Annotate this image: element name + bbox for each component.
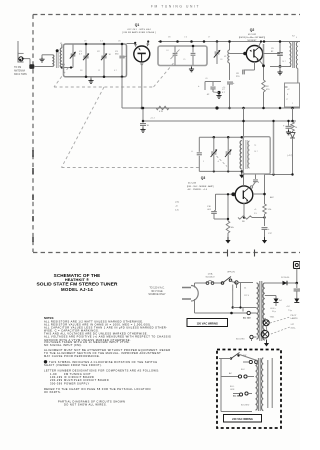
- svg-text:BLK-RED: BLK-RED: [236, 339, 245, 341]
- label box 240 VAC WIRING: [224, 415, 262, 423]
- ground RF box: [191, 66, 193, 68]
- variable capacitor C15 osc trimmer: [227, 137, 229, 151]
- svg-text:-1n: -1n: [175, 206, 178, 208]
- shield box RF tuned circuit: [158, 46, 207, 66]
- diode D2 rectifier: [283, 281, 288, 285]
- capacitor C16b top right of Q3: [253, 179, 258, 181]
- wire top rail B: [158, 41, 300, 43]
- svg-text:1.5k: 1.5k: [268, 209, 272, 211]
- svg-text:GRN: GRN: [230, 389, 235, 391]
- wire outlet down: [296, 269, 298, 284]
- dashed enclosure left border: [32, 15, 34, 253]
- dashed tuning gang diagonal to RF box: [154, 63, 175, 88]
- transformer T2 IF: [290, 43, 291, 67]
- notes bullet symbol: [44, 360, 47, 363]
- svg-text:LAMPS: LAMPS: [291, 317, 299, 320]
- wire Q1 source down to AGC bus: [141, 62, 143, 108]
- dashed tuning gang link lower: [62, 167, 200, 169]
- svg-text:+11.4: +11.4: [150, 118, 155, 120]
- svg-text:OF PARTS.: OF PARTS.: [44, 390, 61, 394]
- switch SW1 on-off: [221, 282, 224, 285]
- wire C9 bottom link: [270, 66, 291, 68]
- svg-text:SOURCE ONLY: SOURCE ONLY: [148, 293, 166, 296]
- connector block IF output: [285, 83, 300, 107]
- wire bus A to osc top: [243, 108, 245, 137]
- trimmer capacitor C6 right of box: [216, 42, 218, 52]
- svg-text:10k: 10k: [231, 227, 234, 229]
- capacitor C10 to ground: [142, 108, 144, 123]
- label box 120 VAC WIRING: [187, 319, 228, 327]
- svg-text:1/4 A: 1/4 A: [208, 273, 213, 276]
- svg-text:MAY CAUSE POOR PERFORMANCE.: MAY CAUSE POOR PERFORMANCE.: [44, 354, 100, 358]
- svg-text:4: 4: [296, 37, 297, 39]
- wire AFC link: [265, 174, 293, 176]
- svg-text:7.5μ: 7.5μ: [288, 310, 292, 312]
- wire T2 secondary down: [297, 69, 299, 76]
- ground under C17: [264, 237, 266, 240]
- svg-text:[FM · OSC · MIXER · AMP]: [FM · OSC · MIXER · AMP]: [187, 185, 214, 188]
- svg-text:115 V: 115 V: [244, 295, 250, 297]
- svg-text:300-399: 300-399: [50, 381, 63, 385]
- svg-text:4.7: 4.7: [114, 70, 117, 72]
- terminal circles box tap0: [249, 360, 252, 363]
- wire plug top lead: [194, 283, 196, 288]
- capacitor C17 electrolytic: [262, 227, 268, 229]
- svg-text:3.3: 3.3: [100, 41, 103, 43]
- ground cluster: [217, 91, 220, 94]
- switch SW2 in box: [230, 357, 232, 359]
- wire primary top: [42, 54, 52, 56]
- oscillator coil L3: [240, 141, 242, 170]
- shield edge right of Q2: [263, 44, 265, 66]
- transformer T3 secondary: [263, 283, 265, 340]
- svg-text:[FM IF(Os+Mix+1ST AMP)]: [FM IF(Os+Mix+1ST AMP)]: [239, 36, 266, 39]
- junction dots on rail B: [159, 40, 162, 43]
- svg-text:10.7: 10.7: [254, 151, 258, 153]
- pilot lamp PL1: [263, 320, 269, 326]
- wire primary tap loop: [240, 283, 242, 308]
- transistor Q3: [235, 186, 253, 204]
- svg-text:L400 +: L400 +: [270, 308, 277, 310]
- transformer T1 antenna coil: [52, 55, 54, 67]
- svg-text:5: 5: [203, 161, 204, 163]
- ground osc coil: [241, 172, 243, 175]
- wire emitter to right node: [252, 217, 265, 219]
- wire antenna lead: [24, 58, 30, 60]
- trimmer capacitor antenna tune: [72, 57, 74, 68]
- wire secondary bottom rail: [62, 67, 73, 69]
- trimmer capacitor C2: [103, 44, 105, 56]
- wire AFC node down: [264, 175, 266, 195]
- svg-text:ANTENNA: ANTENNA: [14, 70, 25, 73]
- svg-text:300 Ω TWIN: 300 Ω TWIN: [14, 74, 27, 76]
- capacitor C5 in box: [192, 46, 194, 53]
- wire box left drop: [220, 359, 222, 412]
- svg-text:MOSFET: MOSFET: [247, 40, 257, 42]
- wire bus link right: [292, 108, 294, 121]
- wire fuse to switch: [214, 282, 222, 284]
- wire Q3 emitter: [243, 203, 245, 218]
- svg-text:POWER SUPPLY: POWER SUPPLY: [64, 381, 90, 385]
- svg-text:T301: T301: [270, 317, 276, 319]
- svg-text:4.7k: 4.7k: [159, 111, 163, 113]
- wire L2 junction down: [229, 63, 231, 80]
- dashed enclosure bottom border: [33, 252, 300, 254]
- dashed tuning gang link upper: [54, 86, 154, 88]
- resistor R5 base bias: [227, 194, 229, 221]
- wire switch to primary: [230, 281, 237, 283]
- ground lamps arrow: [265, 338, 268, 340]
- transformer T3 core: [259, 281, 261, 341]
- svg-text:-40° · 2N3393 · +1.4: -40° · 2N3393 · +1.4: [187, 189, 208, 191]
- svg-text:120 VAC WIRING: 120 VAC WIRING: [197, 321, 218, 325]
- wire Q2 emitter down: [260, 61, 264, 66]
- svg-text:Q3: Q3: [201, 176, 206, 180]
- svg-text:DO NOT SHOW ALL WIRES.: DO NOT SHOW ALL WIRES.: [64, 402, 107, 406]
- capacitor C12 electrolytic to ground: [288, 121, 290, 126]
- svg-text:HEATHKIT ®: HEATHKIT ®: [65, 277, 89, 282]
- ground Q3 common: [227, 233, 229, 237]
- ground under C12: [288, 128, 290, 130]
- svg-text:PILOT: PILOT: [291, 315, 298, 317]
- transformer T3b core: [257, 358, 259, 411]
- wire T1 secondary top to rail: [127, 43, 136, 45]
- diode D3 to ground: [294, 299, 299, 303]
- svg-text:T3: T3: [254, 145, 256, 147]
- transformer T3b secondary: [261, 358, 263, 411]
- svg-text:+10: +10: [222, 87, 225, 89]
- capacitor C9 collector: [279, 42, 281, 53]
- wire primary tap 120: [240, 312, 247, 314]
- svg-text:AC 120: AC 120: [243, 317, 251, 320]
- dashed box 240 VAC wiring: [217, 350, 281, 429]
- svg-text:50 μ: 50 μ: [272, 311, 276, 313]
- rf choke L2: [229, 42, 231, 51]
- wire antenna lower lead: [34, 66, 52, 68]
- junction bus A: [279, 107, 282, 110]
- fuse F1: [206, 282, 209, 285]
- AC plug: [182, 288, 191, 300]
- svg-text:TO FM: TO FM: [14, 67, 21, 69]
- svg-text:C4: C4: [166, 50, 168, 52]
- svg-text:C5: C5: [183, 59, 185, 61]
- wire switch to primary in box: [240, 355, 256, 361]
- wire branch from C3 to bus A: [121, 77, 123, 108]
- wire bus B: [143, 120, 296, 122]
- svg-text:+54°: +54°: [286, 306, 290, 308]
- svg-text:Q2: Q2: [250, 28, 255, 32]
- diode D4 to ground: [274, 299, 279, 303]
- wire primary bottom terminal: [250, 335, 253, 338]
- svg-text:412-L: 412-L: [291, 328, 297, 330]
- diode D1: [290, 133, 295, 139]
- wire osc top rail: [199, 136, 242, 138]
- wire secondary top: [265, 282, 297, 284]
- wire plug bottom lead: [194, 299, 196, 313]
- ground antenna primary: [41, 55, 43, 57]
- svg-text:BLK-RED: BLK-RED: [241, 405, 250, 407]
- transformer T3b primary in box: [256, 360, 258, 410]
- outlet socket J1: [294, 262, 301, 269]
- capacitor C7 electrolytic: [227, 81, 233, 83]
- svg-text:BLK-: BLK-: [230, 386, 235, 388]
- dashed leader pilot lamps: [270, 317, 290, 323]
- variable capacitor C14 osc: [213, 137, 215, 151]
- capacitor C13 osc fixed: [198, 137, 200, 152]
- transistor Q2: [246, 46, 262, 62]
- resistor R2 emitter: [262, 80, 266, 92]
- svg-text:6: 6: [258, 182, 259, 184]
- wire box right leads: [267, 360, 269, 408]
- terminal circle primary top: [235, 281, 238, 284]
- terminal stem: [236, 284, 238, 288]
- svg-text:-‖-: -‖-: [191, 151, 193, 153]
- svg-text:C6: C6: [220, 59, 222, 61]
- capacitor C18 filter: [296, 283, 298, 288]
- capacitor C3 fixed: [121, 44, 123, 56]
- wire aux into Q3 top: [255, 175, 257, 180]
- resistor R3 on bus A: [156, 106, 169, 109]
- svg-text:SLO-BLO: SLO-BLO: [205, 277, 214, 279]
- wire secondary mid tap: [265, 295, 272, 297]
- resistor R4: [291, 122, 295, 131]
- shield box front end: [64, 44, 127, 77]
- svg-text:÷4: ÷4: [217, 160, 219, 163]
- ground under C10: [140, 128, 145, 133]
- capacitor C11 cluster: [212, 82, 214, 87]
- feedthrough capacitor on shield wall: [29, 64, 34, 69]
- wire Q3 base: [216, 193, 236, 195]
- ground under C9: [279, 67, 281, 71]
- svg-text:FM TUNING UNIT: FM TUNING UNIT: [151, 5, 200, 9]
- svg-text:C·4: C·4: [184, 37, 187, 39]
- svg-text:417-242: 417-242: [248, 34, 257, 36]
- svg-text:MODEL AJ-14: MODEL AJ-14: [61, 287, 93, 292]
- svg-text:LETTER NUMBER DESIGNATIONS FOR: LETTER NUMBER DESIGNATIONS FOR COMPONENT…: [44, 369, 160, 373]
- pilot lamp PL2: [261, 330, 269, 338]
- antenna phono plug P1: [17, 41, 19, 52]
- wire 240 feed down: [232, 285, 234, 308]
- resistor R7: [263, 204, 267, 214]
- svg-text:2: 2: [292, 103, 293, 105]
- capacitor C8 emitter bypass: [254, 62, 256, 70]
- wire T2 to block: [297, 75, 299, 83]
- svg-text:.05: .05: [205, 78, 208, 80]
- dashed gang link inside osc: [217, 156, 228, 167]
- variable capacitor C4 in box: [174, 46, 176, 53]
- transformer T3 primary: [257, 283, 259, 339]
- svg-text:417-243: 417-243: [188, 183, 197, 185]
- terminal circles box tap2: [239, 393, 242, 396]
- capacitor C1 fixed: [85, 44, 87, 56]
- ground front-end bus: [90, 77, 92, 79]
- svg-text:AFC: AFC: [270, 196, 275, 199]
- svg-text:(+2.2): (+2.2): [287, 155, 293, 157]
- svg-text:NO SIGNAL INPUT (FM).: NO SIGNAL INPUT (FM).: [44, 343, 82, 347]
- transistor Q1: [134, 46, 150, 62]
- resistor R6 emitter: [238, 216, 252, 219]
- dashed enclosure top border: [33, 14, 300, 16]
- wire bus A: [122, 107, 300, 109]
- terminal circles box tap1: [221, 376, 238, 378]
- capacitor C16 base to ground: [215, 194, 217, 211]
- svg-text:D2 56-56: D2 56-56: [281, 277, 290, 279]
- svg-text:OFF-ON: OFF-ON: [227, 272, 235, 274]
- svg-text:[ FM RF AMPLIFIER STAGE ]: [ FM RF AMPLIFIER STAGE ]: [122, 31, 156, 34]
- svg-text:1k: 1k: [295, 127, 297, 129]
- wire Q3 collector: [243, 174, 245, 186]
- shield box oscillator transformer: [243, 137, 270, 174]
- svg-text:240 VAC WIRING: 240 VAC WIRING: [232, 417, 253, 421]
- svg-text:417-241 · MPS H04: 417-241 · MPS H04: [127, 29, 151, 31]
- svg-text:Q1: Q1: [135, 23, 140, 27]
- wire Q2 collector: [259, 42, 262, 47]
- wire Q2 base: [230, 53, 247, 55]
- dashed tuning gang diagonal long: [62, 87, 105, 168]
- svg-text:SHAFT (VIEWED FROM THE FRONT).: SHAFT (VIEWED FROM THE FRONT).: [44, 363, 102, 367]
- wire gate leads into Q1: [134, 43, 136, 47]
- svg-text:2.2k: 2.2k: [175, 210, 179, 212]
- svg-text:(.01): (.01): [175, 202, 179, 204]
- wire C16 to common ground: [213, 217, 215, 219]
- svg-text:12: 12: [98, 70, 100, 72]
- wire osc bottom rail: [199, 170, 242, 172]
- wire thick link bus B down: [273, 121, 275, 175]
- svg-text:10.7: 10.7: [282, 61, 286, 63]
- wire Q3 right side: [253, 193, 265, 195]
- wire lamps: [265, 318, 266, 320]
